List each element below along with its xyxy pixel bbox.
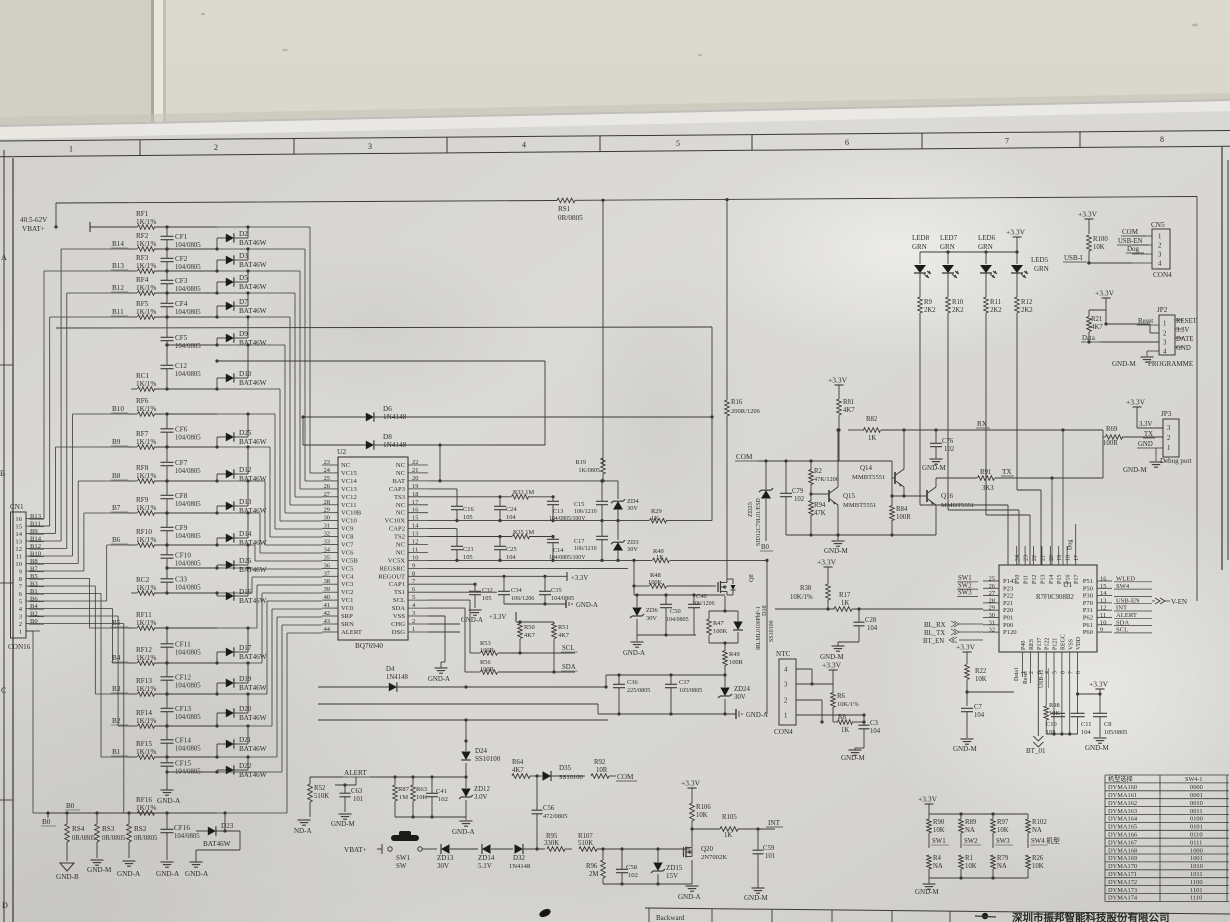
wire emitter bus xyxy=(786,533,936,540)
svg-text:31: 31 xyxy=(989,619,995,626)
svg-text:CHG: CHG xyxy=(391,621,405,628)
svg-text:ZD13: ZD13 xyxy=(437,854,454,862)
svg-text:4: 4 xyxy=(1158,261,1162,268)
svg-text:ZD24: ZD24 xyxy=(734,686,750,693)
svg-text:RX: RX xyxy=(977,420,988,428)
svg-text:BAT46W: BAT46W xyxy=(239,745,267,753)
svg-text:RF4: RF4 xyxy=(136,276,149,284)
svg-text:B: B xyxy=(0,469,5,478)
svg-text:C16: C16 xyxy=(463,506,474,513)
svg-text:R52: R52 xyxy=(314,785,326,792)
svg-text:VC6: VC6 xyxy=(341,550,354,557)
svg-text:9: 9 xyxy=(1100,627,1103,634)
svg-text:4K7: 4K7 xyxy=(843,407,855,414)
capacitor CF5 xyxy=(161,315,202,350)
wire row to U2 pin 39 xyxy=(217,593,322,663)
svg-text:CF2: CF2 xyxy=(175,255,188,263)
svg-text:3.3V: 3.3V xyxy=(1176,327,1189,334)
resistor R22 xyxy=(965,665,987,707)
svg-text:P121: P121 xyxy=(1053,638,1059,650)
svg-text:BT_EN: BT_EN xyxy=(923,638,944,645)
battery GND-A bottom center xyxy=(736,709,768,719)
net label B1 xyxy=(111,748,128,756)
svg-text:1K: 1K xyxy=(868,435,876,442)
svg-text:106/1210: 106/1210 xyxy=(574,509,597,515)
wire row to U2 pin 41 xyxy=(217,609,322,726)
svg-text:2K2: 2K2 xyxy=(952,307,964,314)
svg-text:CN5: CN5 xyxy=(1151,221,1165,229)
svg-text:VC2: VC2 xyxy=(341,589,353,596)
capacitor C21 xyxy=(451,529,474,562)
svg-text:VC13: VC13 xyxy=(341,486,357,493)
ground GND-M under C7 xyxy=(953,739,977,753)
svg-text:BAT46W: BAT46W xyxy=(239,239,267,247)
net label SCL xyxy=(561,645,578,652)
capacitor C34 xyxy=(498,576,534,604)
svg-text:VDD: VDD xyxy=(1076,636,1082,650)
wire row RF14 xyxy=(128,725,217,727)
svg-text:C24: C24 xyxy=(506,506,517,513)
resistor R17 xyxy=(775,592,983,611)
svg-text:10K: 10K xyxy=(975,676,987,683)
capacitor CF13 xyxy=(161,692,202,727)
resistor RF9 xyxy=(136,496,156,515)
svg-text:VC7: VC7 xyxy=(341,542,354,549)
svg-text:RF11: RF11 xyxy=(136,611,152,619)
svg-text:CF16: CF16 xyxy=(174,824,190,832)
ground GND-A left edge xyxy=(294,820,312,835)
svg-text:GND-M: GND-M xyxy=(1085,744,1109,752)
capacitor C79 xyxy=(780,461,805,535)
capacitor C36 xyxy=(613,673,650,715)
svg-text:D16: D16 xyxy=(239,588,252,596)
net label SW1 xyxy=(931,838,949,845)
svg-text:19: 19 xyxy=(1057,555,1063,561)
svg-text:106/1206: 106/1206 xyxy=(692,601,715,607)
svg-text:SW3: SW3 xyxy=(958,590,972,597)
svg-text:CAP1: CAP1 xyxy=(389,581,405,588)
resistor RS3 xyxy=(95,813,126,858)
svg-text:R17: R17 xyxy=(839,592,851,599)
wire net B1 xyxy=(40,594,131,758)
resistor R52 xyxy=(308,777,343,817)
svg-text:3: 3 xyxy=(368,142,372,151)
svg-text:C17: C17 xyxy=(574,538,584,545)
svg-text:B14: B14 xyxy=(112,240,124,248)
wire row to U2 pin 38 xyxy=(217,585,322,628)
svg-text:30V: 30V xyxy=(734,694,746,701)
wire U2 pin9 REGSRC xyxy=(428,567,628,569)
power +3.3V pullups xyxy=(489,612,520,621)
ground GND-A under VSS xyxy=(428,662,450,683)
svg-text:R90: R90 xyxy=(933,819,945,826)
power +3.3V JP2 xyxy=(1089,289,1150,326)
frame header band xyxy=(0,131,1230,157)
resistor RF13 xyxy=(136,677,156,696)
svg-text:COM: COM xyxy=(617,773,634,781)
net label ALERT xyxy=(343,769,370,785)
resistor R50 xyxy=(518,622,536,653)
wire ZD6 node xyxy=(634,595,725,641)
svg-text:SW2: SW2 xyxy=(964,838,978,845)
svg-text:R94: R94 xyxy=(814,502,826,509)
svg-text:BAT: BAT xyxy=(393,478,405,485)
wire RX to U1 pin xyxy=(1061,428,1064,565)
svg-text:NA: NA xyxy=(1032,827,1042,834)
svg-text:6: 6 xyxy=(845,138,849,147)
svg-text:GND-M: GND-M xyxy=(744,894,768,902)
wire U1 pin7 xyxy=(1069,652,1071,734)
diode D22 xyxy=(215,755,266,779)
svg-text:CF6: CF6 xyxy=(175,426,188,434)
diode D16 xyxy=(215,566,266,605)
power +3.3V Q20 xyxy=(681,779,701,796)
svg-text:P51: P51 xyxy=(1083,578,1093,585)
svg-text:D26: D26 xyxy=(239,557,252,565)
wire Q15 collector xyxy=(836,428,839,487)
wire LED top bus xyxy=(920,250,1017,253)
wire row RF11 xyxy=(128,627,217,629)
svg-text:SRP: SRP xyxy=(341,613,353,620)
svg-text:C8: C8 xyxy=(1104,721,1111,728)
svg-text:DYMA172: DYMA172 xyxy=(1108,879,1137,886)
svg-text:R102: R102 xyxy=(1032,819,1047,826)
net label 3.3V JP3 xyxy=(1137,421,1163,428)
ground GND-A under CF16 xyxy=(156,862,180,878)
svg-text:23: 23 xyxy=(1024,555,1030,561)
capacitor CF6 xyxy=(161,412,202,448)
svg-text:4: 4 xyxy=(1045,671,1051,674)
svg-text:C21: C21 xyxy=(463,546,474,553)
ground GND-M under C76 xyxy=(922,459,946,472)
svg-text:深圳市振邦智能科技股份有限公司: 深圳市振邦智能科技股份有限公司 xyxy=(1012,911,1170,922)
svg-text:D9: D9 xyxy=(239,330,248,338)
resistor R49 xyxy=(723,641,744,676)
zener ZD24 xyxy=(718,675,750,714)
LED LED5 xyxy=(1011,256,1049,293)
svg-text:P14: P14 xyxy=(1049,575,1055,584)
power +3.3V R6 xyxy=(822,661,842,685)
svg-text:29: 29 xyxy=(989,605,995,612)
svg-text:100K: 100K xyxy=(648,579,663,586)
ground GND-B xyxy=(56,863,79,881)
svg-text:JP2: JP2 xyxy=(1157,306,1168,314)
svg-text:D21: D21 xyxy=(239,736,252,744)
svg-text:2K2: 2K2 xyxy=(1021,307,1033,314)
svg-text:VC0: VC0 xyxy=(341,605,354,612)
resistor RF4 xyxy=(136,276,156,295)
svg-text:D23: D23 xyxy=(221,822,234,830)
svg-text:NC: NC xyxy=(396,462,406,469)
wire row to U2 pin 36 xyxy=(217,568,322,569)
svg-text:100R: 100R xyxy=(896,514,911,521)
svg-text:R89: R89 xyxy=(965,819,977,826)
resistor R98 xyxy=(1044,652,1060,734)
wire row RF8 xyxy=(128,480,217,482)
svg-text:100K: 100K xyxy=(713,628,728,635)
net label Dog CN5 xyxy=(1126,245,1144,253)
capacitor C41 xyxy=(426,777,448,817)
net label TX JP3 xyxy=(1143,431,1155,438)
wire row to U2 pin 44 xyxy=(217,633,322,813)
svg-text:R38: R38 xyxy=(800,585,812,592)
frame row letter B xyxy=(0,469,5,478)
svg-text:D3: D3 xyxy=(239,252,248,260)
wire row to U2 pin 25 xyxy=(217,249,322,481)
net label B7 xyxy=(111,504,128,512)
wire U2 pin2 CHG xyxy=(428,623,460,625)
svg-text:C34: C34 xyxy=(511,587,522,594)
svg-text:RF14: RF14 xyxy=(136,709,152,717)
wire row RC2 xyxy=(131,592,217,594)
svg-text:CON16: CON16 xyxy=(8,643,31,651)
svg-text:25: 25 xyxy=(989,576,995,583)
wire Q16 collector TX xyxy=(936,477,977,479)
svg-text:1K/1%: 1K/1% xyxy=(136,405,156,413)
svg-text:CN1: CN1 xyxy=(10,503,24,511)
wire net B10 xyxy=(40,414,131,556)
svg-text:6: 6 xyxy=(1060,671,1066,674)
svg-text:GND: GND xyxy=(1138,441,1153,448)
svg-text:1K: 1K xyxy=(656,554,664,561)
net label COM mid xyxy=(735,453,757,461)
svg-text:104/0805: 104/0805 xyxy=(175,309,201,316)
wire VBAT+ to RF1 xyxy=(54,225,137,228)
zener ZD3 xyxy=(611,521,639,562)
svg-text:102: 102 xyxy=(628,872,638,879)
svg-text:Q14: Q14 xyxy=(860,464,873,472)
svg-text:BAT46W: BAT46W xyxy=(239,597,267,605)
svg-text:ZD6: ZD6 xyxy=(646,607,658,614)
svg-text:D: D xyxy=(2,901,8,910)
svg-text:1K/1%: 1K/1% xyxy=(136,438,156,446)
svg-text:4: 4 xyxy=(784,667,788,674)
svg-text:20: 20 xyxy=(1049,555,1055,561)
wire Q8 drain xyxy=(727,461,769,714)
svg-text:CF13: CF13 xyxy=(175,705,191,713)
diode D5 xyxy=(215,269,266,294)
svg-text:RF8: RF8 xyxy=(136,464,149,472)
svg-text:B13: B13 xyxy=(112,262,124,270)
svg-text:GND-M: GND-M xyxy=(1112,360,1136,368)
wire row RF6 xyxy=(128,413,217,415)
wire row y345 xyxy=(167,344,217,346)
LED LED7 xyxy=(940,234,959,293)
svg-text:+3.3V: +3.3V xyxy=(956,643,976,652)
resistor RF7 xyxy=(136,430,156,449)
svg-text:DYMA171: DYMA171 xyxy=(1108,871,1137,878)
resistor R8 xyxy=(833,714,866,734)
diode D19 xyxy=(215,661,266,695)
svg-text:TS2: TS2 xyxy=(394,534,405,541)
svg-text:10K: 10K xyxy=(416,794,428,801)
svg-text:13: 13 xyxy=(1100,597,1106,604)
svg-text:C13: C13 xyxy=(553,508,563,515)
capacitor C63 xyxy=(335,783,363,812)
svg-text:B8: B8 xyxy=(112,472,121,480)
ground GND-M under C63 xyxy=(331,814,355,828)
resistor R26 xyxy=(1026,855,1044,878)
svg-text:5: 5 xyxy=(1053,671,1059,674)
diode D8 xyxy=(303,417,545,481)
svg-text:DYMA169: DYMA169 xyxy=(1108,855,1137,862)
svg-text:LED7: LED7 xyxy=(940,234,958,242)
net label COM CN5 xyxy=(1121,228,1146,236)
svg-text:R48: R48 xyxy=(650,572,661,579)
svg-text:100R: 100R xyxy=(480,666,495,673)
svg-text:CAP2: CAP2 xyxy=(389,526,405,533)
svg-text:VC14: VC14 xyxy=(341,478,357,485)
svg-text:ZD4: ZD4 xyxy=(627,498,640,505)
transistor Q14 xyxy=(852,428,906,496)
svg-text:28: 28 xyxy=(989,597,995,604)
svg-text:GND-A: GND-A xyxy=(185,870,209,878)
net label B5 xyxy=(111,619,128,627)
svg-text:SS10100: SS10100 xyxy=(475,755,501,763)
svg-text:R7F0C908B2: R7F0C908B2 xyxy=(1036,594,1074,601)
svg-text:B9: B9 xyxy=(30,528,38,535)
wire row to U2 pin 42 xyxy=(217,617,322,757)
svg-text:Q20: Q20 xyxy=(701,845,714,853)
svg-text:U2: U2 xyxy=(337,447,346,456)
svg-text:GND-M: GND-M xyxy=(915,888,939,896)
wire row to U2 pin 27 xyxy=(217,293,322,497)
capacitor C32 xyxy=(469,584,493,608)
svg-text:GND-M: GND-M xyxy=(331,820,355,828)
svg-text:1K/1%: 1K/1% xyxy=(136,584,156,592)
svg-text:BAT46W: BAT46W xyxy=(239,507,267,515)
ground GND-A under ZD12 xyxy=(452,821,475,836)
resistor R81 xyxy=(837,399,856,461)
wire row RF2 xyxy=(128,248,217,250)
svg-text:4K7: 4K7 xyxy=(558,632,570,639)
wire row RF16 xyxy=(131,812,217,814)
resistor RF8 xyxy=(136,464,156,483)
svg-text:R100: R100 xyxy=(1093,236,1108,243)
svg-text:BAT46W: BAT46W xyxy=(203,840,231,848)
resistor RF2 xyxy=(136,232,156,251)
wire mid bus 704 xyxy=(318,703,598,705)
capacitor C50 xyxy=(660,593,689,636)
svg-text:ZD15: ZD15 xyxy=(666,864,683,872)
svg-text:+3.3V: +3.3V xyxy=(1126,398,1146,407)
svg-text:SW3: SW3 xyxy=(996,838,1010,845)
transistor Q16 xyxy=(890,478,974,535)
svg-text:104/0805: 104/0805 xyxy=(666,617,689,623)
diode D21 xyxy=(215,724,266,758)
svg-text:P20: P20 xyxy=(1003,607,1014,614)
resistor R16 xyxy=(725,399,761,461)
wire LED5 out xyxy=(1017,322,1041,565)
capacitor C24 xyxy=(494,497,517,522)
svg-text:1K/1%: 1K/1% xyxy=(136,685,156,693)
svg-text:1K/1%: 1K/1% xyxy=(136,472,156,480)
svg-text:RF16: RF16 xyxy=(136,796,152,804)
svg-text:B0: B0 xyxy=(66,802,75,810)
svg-text:1: 1 xyxy=(1163,321,1166,328)
net label TX xyxy=(1001,468,1014,476)
svg-text:5.1V: 5.1V xyxy=(478,862,492,870)
net label B8 xyxy=(111,472,128,480)
ground GND-A under D23 xyxy=(185,862,209,878)
svg-text:104: 104 xyxy=(974,712,985,719)
wire row RF10 xyxy=(128,544,217,546)
connector CN5 xyxy=(1132,221,1172,279)
svg-text:NA: NA xyxy=(933,863,943,870)
wire row RC1 xyxy=(131,388,217,390)
svg-text:R105: R105 xyxy=(722,814,737,821)
svg-text:NTC: NTC xyxy=(776,650,791,658)
svg-text:1K: 1K xyxy=(724,832,732,839)
ground GND-M under Q15 xyxy=(824,541,848,555)
svg-text:0100: 0100 xyxy=(1190,816,1203,823)
svg-text:P00: P00 xyxy=(1003,622,1014,629)
svg-text:R92: R92 xyxy=(594,759,606,766)
svg-text:R106: R106 xyxy=(696,804,711,811)
svg-text:1: 1 xyxy=(1167,445,1170,452)
svg-text:D35: D35 xyxy=(559,764,572,772)
svg-text:2: 2 xyxy=(1167,435,1171,442)
svg-text:102: 102 xyxy=(794,496,805,503)
svg-text:CF4: CF4 xyxy=(175,300,188,308)
resistor R40 xyxy=(653,548,768,563)
svg-text:BAT46W: BAT46W xyxy=(239,566,267,574)
svg-text:0001: 0001 xyxy=(1190,792,1203,799)
svg-text:P70: P70 xyxy=(1083,600,1094,607)
svg-text:CF10: CF10 xyxy=(175,552,191,560)
zener ZD14 xyxy=(478,844,513,870)
svg-text:R16: R16 xyxy=(731,399,743,406)
svg-text:P50: P50 xyxy=(1083,585,1094,592)
svg-text:104/0805: 104/0805 xyxy=(174,833,200,840)
diode D12 xyxy=(215,445,266,483)
svg-text:RF10: RF10 xyxy=(136,528,152,536)
resistor R63 xyxy=(411,777,428,817)
svg-text:2K2: 2K2 xyxy=(990,307,1002,314)
svg-text:30V: 30V xyxy=(627,546,638,553)
resistor RF10 xyxy=(136,528,156,547)
svg-text:LED6: LED6 xyxy=(978,234,996,242)
ground GND-M SW array xyxy=(915,884,939,896)
power +3.3V R38 xyxy=(817,558,837,585)
svg-text:21: 21 xyxy=(1040,555,1046,561)
net label USB-I xyxy=(1063,254,1132,265)
svg-text:225/0805: 225/0805 xyxy=(627,687,650,694)
wire U2 pin10 VC5X row xyxy=(428,559,652,562)
svg-text:RS4: RS4 xyxy=(72,825,85,833)
wire row to U2 pin 32 xyxy=(217,447,322,537)
resistor R79 xyxy=(991,855,1009,878)
svg-text:GND-A: GND-A xyxy=(461,617,483,624)
svg-text:1N4148: 1N4148 xyxy=(386,674,409,681)
svg-text:B6: B6 xyxy=(30,596,38,603)
wire R29 loop box xyxy=(56,327,712,521)
svg-text:C36: C36 xyxy=(627,679,638,686)
wire COM bus xyxy=(757,459,892,496)
svg-text:GRN: GRN xyxy=(940,243,955,251)
svg-text:RC2: RC2 xyxy=(136,576,150,584)
net label SW2 xyxy=(963,838,981,845)
svg-text:P30: P30 xyxy=(1083,593,1094,600)
resistor RF6 xyxy=(136,397,156,416)
svg-text:VC10X: VC10X xyxy=(384,518,405,525)
svg-text:102: 102 xyxy=(438,796,448,803)
svg-text:B0: B0 xyxy=(30,618,38,625)
capacitor C7 xyxy=(961,704,985,738)
resistor R84 xyxy=(890,496,911,535)
resistor R100 xyxy=(1087,235,1109,263)
wire LED8 out xyxy=(920,322,1008,565)
